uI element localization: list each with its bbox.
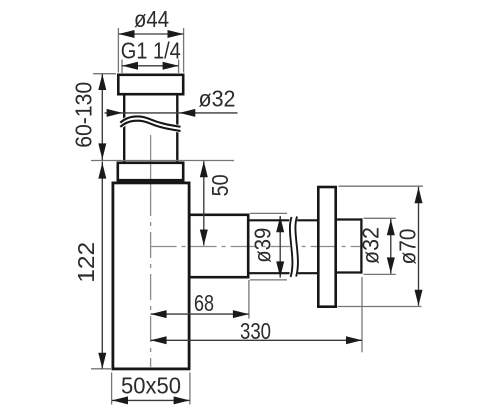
dim line 68 xyxy=(151,313,249,315)
arrow 60-130 up xyxy=(98,74,106,90)
svg-text:50: 50 xyxy=(207,174,233,196)
wavy break lines on vertical pipe xyxy=(120,116,180,126)
ext: G1 1/4 right xyxy=(178,60,180,74)
svg-text:ø70: ø70 xyxy=(395,229,421,265)
arrow 122 down xyxy=(98,353,106,369)
arrow o32top left xyxy=(107,109,123,117)
outlet nut xyxy=(189,215,248,277)
svg-text:122: 122 xyxy=(73,242,99,283)
arrow o44 left xyxy=(119,30,135,38)
ext: 68 right xyxy=(248,280,250,319)
arrow o32top right xyxy=(179,109,195,117)
ext: 330 right xyxy=(361,277,363,352)
arrow o70 down xyxy=(415,290,423,306)
arrow 122 up xyxy=(98,163,106,179)
bottle body xyxy=(113,183,189,369)
svg-text:ø32: ø32 xyxy=(199,85,236,111)
arrow 50 up xyxy=(200,161,208,177)
lock nut above body xyxy=(118,163,183,180)
svg-text:60-130: 60-130 xyxy=(70,82,96,148)
fill: outlet nut xyxy=(188,214,250,279)
arrow o70 up xyxy=(415,187,423,203)
arrowheads xyxy=(98,30,422,404)
arrow 330 left xyxy=(151,336,167,344)
wavy break lines on outlet pipe xyxy=(290,217,293,277)
centerline horizontal of outlet xyxy=(151,246,364,248)
svg-text:ø32: ø32 xyxy=(358,227,384,264)
ext: G1 1/4 left xyxy=(121,60,123,74)
dim line G1 1/4 xyxy=(122,65,179,67)
arrow G114 right xyxy=(163,62,179,70)
dim line o39 xyxy=(279,216,281,278)
arrow o32r up xyxy=(387,219,395,235)
fill: lock nut xyxy=(117,162,185,182)
arrow o32r down xyxy=(387,257,395,273)
ext: body bottom left xyxy=(91,368,111,370)
arrow G114 left xyxy=(122,62,138,70)
svg-text:68: 68 xyxy=(194,290,214,316)
svg-text:50x50: 50x50 xyxy=(121,373,181,399)
dim line 50 xyxy=(203,161,205,245)
fill: top cap xyxy=(117,74,185,96)
ext: o39 bottom xyxy=(250,279,287,281)
break band (white) on vertical pipe xyxy=(120,119,180,129)
outlet pipe (nut to wall) xyxy=(248,220,319,273)
dim line 60-130 xyxy=(101,74,103,160)
dimension lines xyxy=(102,34,418,400)
ext: o70 bottom xyxy=(338,306,422,308)
arrow o39 down xyxy=(276,261,284,277)
svg-text:ø39: ø39 xyxy=(249,228,275,263)
arrow 68 left xyxy=(151,310,167,318)
ext: o44 left xyxy=(117,28,119,73)
arrow 68 right xyxy=(233,310,249,318)
ext: o44 right xyxy=(183,28,185,73)
vertical telescopic pipe xyxy=(124,95,177,162)
dim line 50x50 xyxy=(112,399,190,401)
wall flange xyxy=(318,187,335,307)
ext: o39 top xyxy=(250,212,287,214)
arrow o39 up xyxy=(276,216,284,232)
ext: o32 right top xyxy=(364,217,396,219)
top cap (nut) of siphon xyxy=(118,75,183,94)
arrow o44 right xyxy=(168,30,184,38)
dim line o32 top xyxy=(105,112,238,114)
white fills of parts (under centerlines) xyxy=(112,74,338,371)
fill: telescopic pipe xyxy=(123,95,179,162)
ext: pipe bottom level xyxy=(91,160,234,162)
svg-text:330: 330 xyxy=(240,318,271,344)
dim line 122 xyxy=(101,162,103,369)
extension lines (thin) xyxy=(91,28,423,405)
dim line o70 xyxy=(418,187,420,306)
ext: cap top level left xyxy=(93,73,116,75)
arrow 330 right xyxy=(346,336,362,344)
fill: bottle body xyxy=(112,182,191,371)
ext: 50x50 right xyxy=(189,373,191,405)
svg-text:G1 1/4: G1 1/4 xyxy=(121,38,181,64)
dim line o32 right xyxy=(390,219,392,274)
centerline vertical of bottle (dashed run) xyxy=(150,190,152,367)
ext: 50x50 left xyxy=(111,373,113,405)
arrow 50x50 left xyxy=(112,396,128,404)
centerline vertical of bottle (upper solid run) xyxy=(150,135,152,190)
ext: o32 right bottom xyxy=(364,273,396,275)
svg-text:ø44: ø44 xyxy=(134,6,169,32)
dim line o44 xyxy=(119,33,184,35)
dim line 330 xyxy=(151,339,362,341)
wall-side pipe end xyxy=(336,218,362,273)
break band (white) on outlet pipe xyxy=(293,217,296,277)
fill: wall flange xyxy=(317,186,337,308)
arrow 50 down xyxy=(200,230,208,246)
arrow 50x50 right xyxy=(174,396,190,404)
ext: o70 top xyxy=(339,185,424,187)
arrow 60-130 down xyxy=(98,143,106,159)
